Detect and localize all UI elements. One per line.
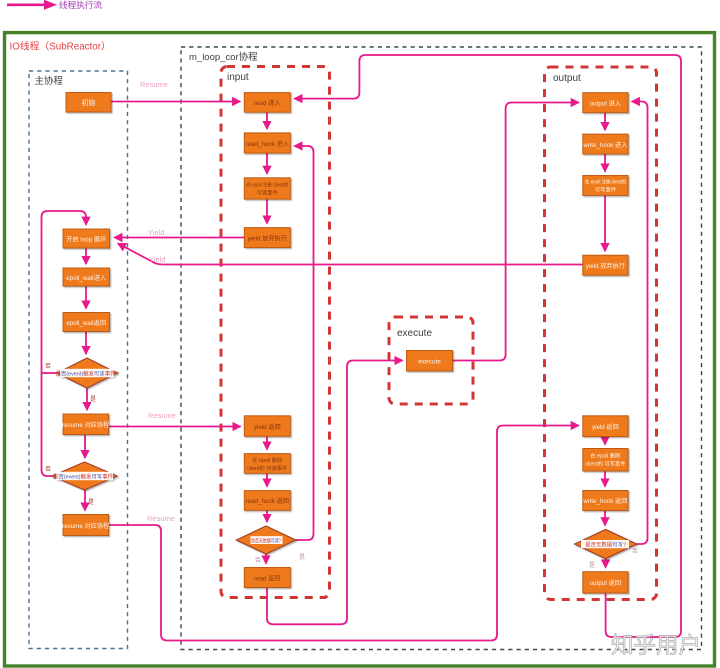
svg-text:主协程: 主协程: [35, 75, 64, 87]
svg-text:否: 否: [255, 557, 261, 564]
wire: output返回 big loop back to read进入: [295, 55, 682, 637]
svg-text:output 进入: output 进入: [590, 99, 621, 107]
box read返回: [244, 568, 290, 588]
svg-text:是: 是: [299, 554, 305, 561]
diamond3 是否无数据可读: [236, 526, 295, 554]
input dashed container: [221, 67, 330, 598]
svg-text:Resume: Resume: [140, 80, 168, 89]
svg-text:read 进入: read 进入: [254, 99, 280, 107]
svg-text:线程执行流: 线程执行流: [59, 0, 102, 10]
box resume1 对应协程: [62, 414, 109, 435]
wire: input yield to 开启loop (Yield): [115, 237, 245, 239]
svg-text:client的 可读事件: client的 可读事件: [247, 464, 288, 472]
wire: epoll_wait进入 to epoll_wait返回: [85, 286, 87, 308]
diamond1 是否触发可读事件: [56, 358, 119, 388]
svg-text:在 epoll 注册client的: 在 epoll 注册client的: [585, 178, 626, 186]
svg-text:是: 是: [88, 499, 94, 506]
box resume2 对应协程: [62, 515, 109, 536]
main coroutine dashed container 主协程: [29, 71, 128, 649]
svg-text:yield 返回: yield 返回: [592, 424, 619, 431]
svg-text:是否无数据可读?: 是否无数据可读?: [251, 536, 281, 544]
svg-text:初始: 初始: [82, 98, 96, 107]
svg-text:input: input: [227, 72, 249, 83]
svg-text:yield 返回: yield 返回: [254, 424, 281, 431]
box output yield放弃执行: [583, 255, 628, 275]
wire: diamond4 loop back to output进入: [632, 102, 648, 545]
svg-text:execute: execute: [418, 359, 441, 366]
wire: 注册可写 to output yield放弃执行: [604, 195, 606, 251]
wire: diamond1 to resume1: [86, 388, 88, 410]
svg-text:否: 否: [45, 466, 51, 473]
svg-text:是否(event)触发可读事件?: 是否(event)触发可读事件?: [56, 369, 119, 377]
svg-text:Resume: Resume: [148, 411, 176, 420]
wire: input yield返回 to 删除可读: [266, 436, 268, 449]
svg-text:write_hook 进入: write_hook 进入: [582, 141, 627, 149]
wire: read_hook返回 to diamond3: [266, 510, 268, 522]
box 向epoll注册client的可读事件: [244, 178, 290, 199]
wire: 初始 to read 进入: [111, 101, 240, 103]
legend: thread execution flow arrow: [7, 0, 57, 10]
svg-text:yield 放弃执行: yield 放弃执行: [586, 262, 625, 270]
svg-text:resume 对应协程: resume 对应协程: [62, 421, 109, 429]
wire: diamond3 loop back to read_hook进入: [295, 146, 314, 540]
svg-text:是: 是: [90, 396, 96, 403]
svg-text:知乎用户: 知乎用户: [611, 633, 701, 658]
box read进入: [244, 93, 290, 113]
wire: read_hook进入 to 注册可读: [266, 153, 268, 174]
box output yield返回: [583, 416, 628, 437]
svg-text:Yield: Yield: [149, 255, 165, 264]
svg-text:Resume: Resume: [147, 514, 175, 523]
box output返回: [583, 572, 628, 593]
svg-text:是: 是: [589, 562, 595, 569]
box 在epoll注册client的可写事件: [583, 176, 628, 196]
diamond2 是否触发可写事件: [52, 462, 117, 490]
wire: diamond1 left exit: [42, 372, 57, 374]
svg-text:Yield: Yield: [148, 228, 164, 237]
box input yield放弃执行: [244, 228, 290, 248]
svg-text:epoll_wait返回: epoll_wait返回: [66, 320, 106, 327]
wire: epoll_wait返回 to diamond1: [85, 332, 87, 354]
svg-text:否: 否: [45, 363, 51, 370]
m_loop_cor coroutine dashed container: [181, 47, 702, 650]
svg-text:read 返回: read 返回: [254, 575, 280, 582]
wire: resume1 to input yield返回 (Resume): [109, 426, 241, 428]
wire: diamond3 to read返回: [265, 554, 267, 563]
box read_hook返回: [244, 491, 290, 511]
svg-text:output: output: [553, 73, 581, 84]
svg-text:IO线程（SubReactor）: IO线程（SubReactor）: [10, 40, 111, 53]
wire: write_hook返回 to diamond4: [604, 511, 606, 526]
box output进入: [583, 93, 628, 113]
box 在epoll删除client的可读事件: [244, 454, 290, 474]
svg-text:在 epoll 删除: 在 epoll 删除: [252, 456, 283, 464]
svg-text:resume 对应协程: resume 对应协程: [62, 522, 109, 530]
svg-text:是否无数据可写?: 是否无数据可写?: [585, 540, 626, 548]
wire: 开启loop to epoll_wait进入: [85, 248, 87, 264]
wire: write_hook进入 to 注册可写: [604, 154, 606, 171]
box epoll_wait进入: [63, 268, 110, 286]
wire: resume2 to output yield返回 (Resume): [109, 426, 579, 641]
svg-text:read_hook 返回: read_hook 返回: [246, 498, 289, 505]
wire: output进入 to write_hook进入: [604, 113, 606, 130]
svg-text:是否(event)触发可写事件?: 是否(event)触发可写事件?: [53, 472, 116, 480]
svg-text:可写事件: 可写事件: [595, 186, 617, 194]
output dashed container: [545, 67, 657, 600]
svg-text:epoll_wait进入: epoll_wait进入: [66, 274, 106, 282]
execute dashed container: [389, 317, 473, 404]
wire: output yield返回 to 删除可写: [604, 437, 606, 445]
svg-text:output 返回: output 返回: [590, 580, 621, 587]
wire: 删除可读 to read_hook返回: [266, 473, 268, 486]
svg-text:m_loop_cor协程: m_loop_cor协程: [189, 51, 258, 63]
svg-text:yield 放弃执行: yield 放弃执行: [248, 234, 287, 242]
box 初始: [66, 93, 111, 113]
box write_hook进入: [582, 134, 628, 154]
wire: 删除可写 to write_hook返回: [604, 471, 606, 486]
box 在epoll删除client的可写事件: [583, 449, 628, 472]
svg-text:client的 可写事件: client的 可写事件: [585, 460, 626, 468]
box epoll_wait返回: [63, 313, 110, 332]
wire: read返回 to execute: [267, 361, 402, 625]
svg-text:execute: execute: [397, 328, 432, 339]
box input yield返回: [244, 416, 290, 437]
wire: diamond2 to resume2: [84, 490, 86, 510]
svg-text:可读事件: 可读事件: [257, 189, 279, 197]
wire: 注册可读 to yield放弃执行: [266, 199, 268, 223]
svg-text:在 epoll 删除: 在 epoll 删除: [590, 452, 621, 460]
box 开启loop循环: [63, 229, 110, 248]
box execute: [407, 351, 453, 372]
wire: output yield to 开启loop (Yield): [118, 244, 583, 265]
svg-text:开启 loop 循环: 开启 loop 循环: [66, 235, 106, 243]
svg-text:read_hook 进入: read_hook 进入: [246, 140, 289, 148]
diamond4 是否无数据可写: [575, 529, 637, 558]
box read_hook进入: [244, 133, 290, 153]
wire: resume1 to diamond2: [84, 435, 86, 458]
svg-text:write_hook 返回: write_hook 返回: [582, 498, 627, 505]
wire: read进入 to read_hook进入: [266, 112, 268, 129]
wire: left loop vertical to 开启loop top: [42, 211, 87, 476]
box write_hook返回: [582, 491, 628, 511]
wire: execute to output进入: [453, 103, 579, 361]
wire: diamond4 to output返回: [605, 559, 607, 568]
svg-text:否: 否: [632, 548, 638, 555]
svg-text:向 epoll 注册 client的: 向 epoll 注册 client的: [246, 181, 288, 189]
